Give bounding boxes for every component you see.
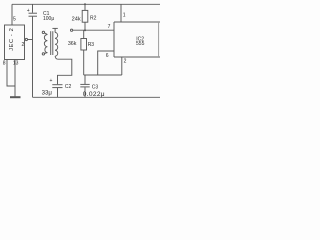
svg-text:C3: C3	[92, 84, 99, 90]
svg-text:+: +	[50, 78, 53, 84]
svg-text:2: 2	[124, 59, 127, 65]
svg-text:33μ: 33μ	[42, 90, 53, 97]
svg-text:C2: C2	[65, 84, 72, 90]
svg-text:2: 2	[22, 42, 25, 48]
svg-text:555: 555	[136, 41, 145, 47]
svg-text:8: 8	[3, 60, 6, 66]
svg-text:1: 1	[123, 13, 126, 19]
svg-text:0.022μ: 0.022μ	[83, 91, 105, 98]
svg-text:+: +	[27, 8, 30, 14]
svg-text:JEC - 2: JEC - 2	[9, 28, 15, 51]
svg-text:13: 13	[13, 60, 19, 66]
svg-text:36k: 36k	[68, 41, 77, 47]
svg-text:R3: R3	[88, 42, 95, 48]
svg-text:R2: R2	[90, 15, 97, 21]
svg-text:7: 7	[108, 24, 111, 30]
svg-text:6: 6	[106, 53, 109, 59]
svg-text:100μ: 100μ	[43, 16, 54, 22]
svg-text:24k: 24k	[72, 16, 81, 22]
svg-text:5: 5	[13, 17, 16, 23]
